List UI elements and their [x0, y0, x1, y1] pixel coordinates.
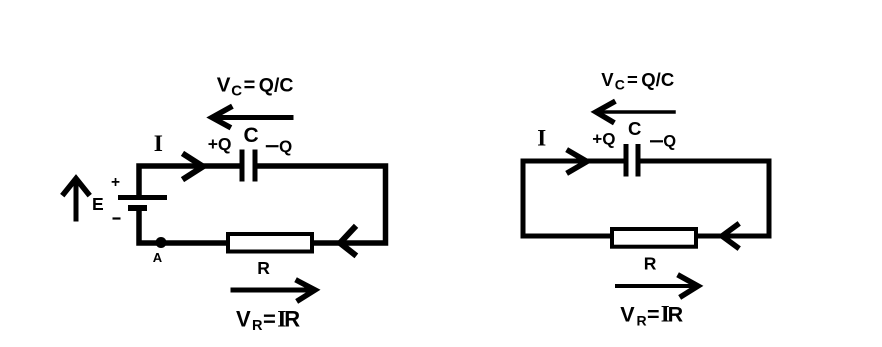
svg-text:Q: Q: [663, 133, 676, 151]
svg-text:R: R: [284, 306, 300, 331]
svg-text:R: R: [257, 258, 270, 278]
svg-text:Q/C: Q/C: [259, 74, 294, 96]
svg-text:C: C: [615, 77, 625, 93]
svg-text:A: A: [153, 250, 163, 265]
svg-text:V: V: [620, 303, 635, 327]
svg-text:I: I: [154, 131, 163, 157]
svg-text:=: =: [244, 74, 256, 96]
svg-text:C: C: [231, 82, 242, 99]
svg-text:Q/C: Q/C: [641, 69, 674, 90]
svg-text:Q: Q: [279, 137, 292, 156]
svg-text:C: C: [628, 118, 641, 139]
svg-text:V: V: [601, 69, 614, 90]
svg-text:I: I: [537, 126, 546, 151]
svg-text:=: =: [627, 69, 638, 90]
svg-text:=: =: [263, 306, 276, 331]
svg-text:C: C: [244, 124, 259, 147]
svg-text:E: E: [92, 194, 104, 214]
svg-text:R: R: [668, 303, 684, 327]
svg-text:V: V: [236, 306, 251, 331]
svg-text:R: R: [637, 313, 647, 329]
svg-text:+Q: +Q: [592, 129, 615, 148]
svg-text:+Q: +Q: [208, 134, 232, 154]
svg-text:R: R: [644, 254, 657, 274]
svg-text:=: =: [647, 303, 660, 327]
svg-text:R: R: [252, 318, 263, 334]
svg-text:V: V: [217, 73, 231, 96]
svg-text:+: +: [111, 174, 120, 191]
